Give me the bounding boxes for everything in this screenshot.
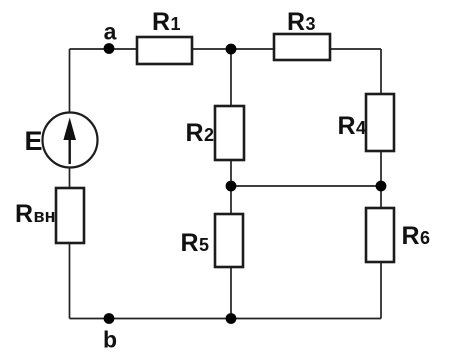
svg-text:a: a [104,19,117,45]
wire left vertical branch [69,49,71,319]
svg-text:R: R [152,8,170,36]
node junction mid left (R2/R5) [226,181,237,192]
svg-text:2: 2 [204,125,214,145]
node junction mid right (R4/R6) [376,181,387,192]
source E (current/EMF source circle with arrow) [25,113,98,168]
resistor R2 [186,106,245,160]
svg-text:5: 5 [199,235,209,255]
svg-text:1: 1 [171,14,181,34]
svg-text:R: R [15,200,33,228]
wire bottom horizontal [70,318,382,320]
resistor R5 [181,214,244,267]
node junction bottom middle [226,313,237,324]
node junction top middle [226,44,237,55]
svg-text:R: R [287,8,305,36]
svg-text:R: R [338,112,356,140]
svg-text:3: 3 [306,14,316,34]
svg-text:b: b [103,327,117,353]
svg-text:R: R [402,222,420,250]
wire top horizontal a..R1..R3..corner [70,48,382,50]
resistor R6 [366,208,430,262]
svg-text:4: 4 [356,118,366,138]
resistor R3 [274,8,330,60]
svg-text:вн: вн [34,206,56,226]
wire middle vertical branch [230,49,232,319]
svg-text:6: 6 [420,228,430,248]
node a [104,19,117,54]
resistor R4 [338,94,395,151]
wire middle horizontal [231,185,381,187]
svg-text:R: R [181,229,199,257]
resistor Rвн (internal resistance) [15,188,84,243]
svg-text:R: R [186,119,204,147]
resistor R1 [137,8,192,64]
node b [103,313,117,352]
svg-text:E: E [25,126,43,156]
wire right vertical branch [380,49,382,319]
